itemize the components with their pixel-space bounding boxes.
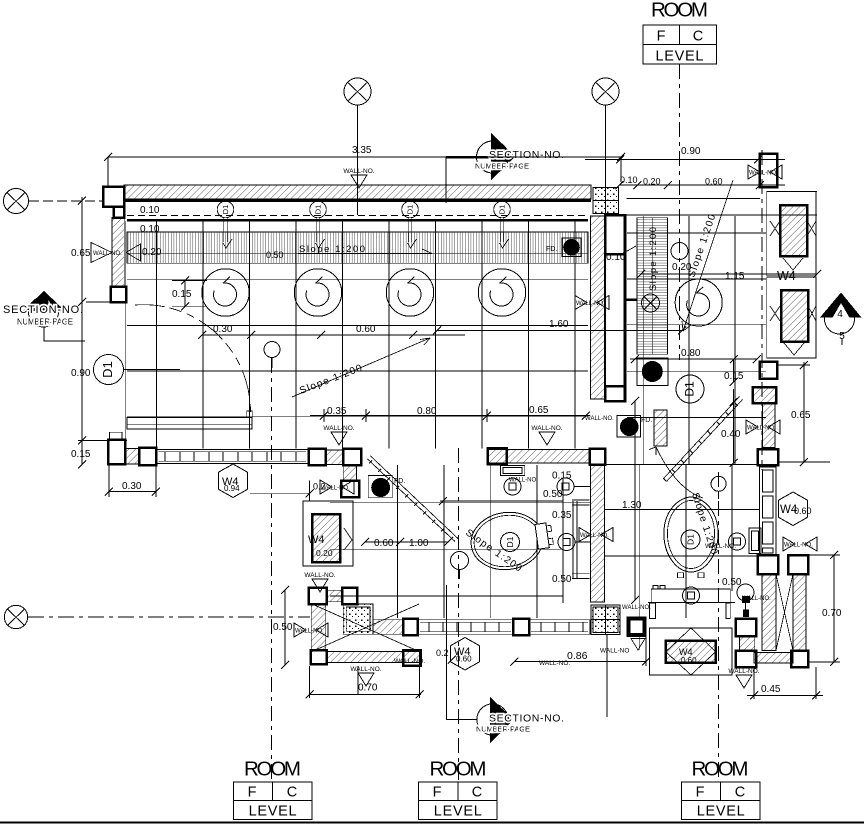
dimension chain left (0.65/0.90/0.15) — [71, 197, 127, 469]
column bottom-left A — [108, 432, 125, 464]
top wall hatched band — [124, 185, 591, 199]
svg-text:0.15: 0.15 — [71, 449, 91, 460]
svg-text:SECTION-NO.: SECTION-NO. — [489, 713, 564, 725]
svg-text:1.30: 1.30 — [622, 500, 642, 511]
svg-text:1.60: 1.60 — [549, 319, 569, 330]
pipe chase line — [562, 478, 564, 603]
right boundary helper lines — [605, 464, 760, 466]
urinal 3 — [386, 269, 433, 316]
svg-text:0.35: 0.35 — [327, 406, 347, 417]
svg-text:NUMBER-PAGE: NUMBER-PAGE — [17, 318, 73, 327]
valve circle 1 — [504, 478, 521, 495]
svg-text:3.35: 3.35 — [352, 145, 372, 156]
svg-text:C: C — [693, 29, 703, 45]
urinal 4 — [478, 269, 525, 316]
cleanout circle on grate — [642, 294, 660, 312]
grid bubble X top-2 — [592, 78, 619, 214]
svg-text:0.20: 0.20 — [316, 548, 333, 558]
dimension 0.70 right — [808, 551, 842, 666]
svg-text:0.50: 0.50 — [722, 577, 742, 588]
urinal supply stems — [223, 218, 509, 248]
svg-text:0.50: 0.50 — [266, 250, 284, 260]
label 0.25 and bowtie — [250, 480, 354, 497]
valve circle 2 — [557, 478, 590, 495]
svg-text:0.90: 0.90 — [71, 368, 91, 379]
wall-no bowtie wall A mid — [579, 528, 613, 542]
speckled column block top corner — [593, 188, 619, 214]
wall-no labels corner — [600, 605, 651, 655]
grid bubble D1 left — [94, 355, 181, 385]
drain grate band left room — [127, 232, 588, 263]
dimension 0.30 bottom-left — [105, 465, 160, 497]
svg-text:0.20: 0.20 — [643, 177, 661, 187]
hatched block right mid — [753, 387, 777, 403]
floor sign circle middle — [451, 552, 469, 580]
left wall inner face line — [125, 221, 127, 448]
dimension 1.30 — [622, 397, 642, 604]
svg-text:ROOM: ROOM — [430, 758, 487, 781]
svg-text:0.65: 0.65 — [791, 410, 811, 421]
svg-text:0.45: 0.45 — [761, 684, 781, 695]
floor drain FD right room — [585, 415, 652, 437]
svg-text:1.00: 1.00 — [409, 538, 429, 549]
urinal bubbles D1 row — [217, 201, 510, 218]
speckled square shaft — [343, 604, 373, 634]
dimension 0.90 top right — [585, 146, 785, 164]
svg-text:0.2: 0.2 — [436, 648, 449, 658]
svg-text:0.50: 0.50 — [273, 622, 293, 633]
wall-no bowtie top right — [748, 165, 782, 179]
bottom band right stall — [754, 653, 793, 664]
hatch strip below D — [343, 465, 356, 480]
tiled band 2 — [529, 620, 590, 634]
svg-text:0.50: 0.50 — [543, 489, 563, 500]
svg-text:4: 4 — [837, 309, 843, 320]
tiled wall band bottom-left — [156, 449, 308, 463]
door post hatched — [654, 410, 667, 446]
columns L M N — [736, 619, 809, 668]
wall-no marker duct — [304, 572, 335, 592]
svg-text:0.15: 0.15 — [172, 289, 192, 300]
wall-no bowtie right stall — [783, 537, 817, 551]
svg-text:Slope 1:200: Slope 1:200 — [648, 227, 659, 291]
dimension line 0.50 stall — [439, 497, 563, 505]
svg-text:ROOM: ROOM — [692, 758, 749, 781]
svg-text:0.40: 0.40 — [721, 429, 741, 440]
tile grid right lower room — [605, 465, 759, 650]
hatched walls right stall — [762, 574, 806, 651]
svg-text:C: C — [472, 785, 482, 801]
tile grid right room — [627, 216, 766, 464]
svg-text:0.60: 0.60 — [794, 506, 812, 516]
section marker bottom-middle — [446, 585, 564, 743]
wall-no bowtie left wall — [91, 243, 141, 263]
column I — [513, 619, 529, 636]
lower-left vertical wall hatched — [311, 604, 326, 651]
svg-text:LEVEL: LEVEL — [656, 49, 704, 65]
interior wall A hatched upper — [591, 216, 605, 399]
door swing right room — [656, 447, 703, 498]
door leaf right room — [664, 397, 743, 482]
svg-text:WALL-NO.: WALL-NO. — [622, 605, 651, 611]
wall-no bowtie wall B — [575, 296, 637, 310]
grid bubble X top-1 — [344, 78, 371, 215]
duct shaft W4 left — [303, 501, 353, 566]
svg-text:0.65: 0.65 — [71, 248, 91, 259]
column C mid — [309, 449, 326, 466]
dimension 0.86 — [510, 650, 650, 667]
wall A lower hatched — [591, 465, 605, 602]
valve circle 3 — [558, 534, 590, 551]
hatch segment C-D — [326, 450, 343, 465]
svg-text:LEVEL: LEVEL — [697, 804, 745, 820]
dimension 0.80 right room — [630, 348, 761, 363]
dimension 0.40 — [721, 389, 741, 467]
vanity counter — [650, 628, 733, 675]
column H — [403, 619, 417, 636]
window assembly W4 lower — [767, 277, 816, 358]
room table bottom-middle — [419, 758, 498, 820]
flush valve toilet 2 — [729, 528, 762, 554]
toilet 1 accessible — [467, 506, 556, 574]
dimension 0.65 right — [778, 361, 830, 466]
wall band hatch mid — [373, 620, 403, 634]
door leaf middle room — [368, 456, 459, 542]
top wall second thick line — [127, 219, 588, 222]
centerline vertical x718.5 — [718, 472, 720, 780]
dimension 3.35 top — [104, 145, 625, 186]
dimension row 0.30 / 0.60 — [198, 324, 465, 339]
tile grid middle lower room — [330, 465, 590, 618]
cistern toilet 1 — [501, 465, 525, 475]
stall partition tiled wall — [760, 467, 777, 555]
centerline vertical x271.7 — [271, 358, 273, 780]
urinal 1 — [202, 269, 249, 316]
labels 0.15 0.50 0.35 0.50 pipe chase — [543, 471, 572, 586]
svg-text:ROOM: ROOM — [244, 758, 301, 781]
room table top — [643, 0, 717, 65]
floor drain FD middle room — [368, 476, 405, 498]
window assembly W4 upper — [767, 191, 816, 275]
svg-text:0.20: 0.20 — [142, 247, 162, 258]
hexagon W4 right — [779, 492, 812, 526]
dimension 0.15 urinal — [172, 277, 207, 311]
svg-text:WALL-NO: WALL-NO — [600, 648, 629, 655]
svg-text:NUMBER-PAGE: NUMBER-PAGE — [475, 162, 529, 171]
door jamb top right — [760, 154, 777, 188]
wall-no marker + 0.45 dim — [728, 667, 823, 700]
columns F G — [309, 588, 358, 604]
left wall hatched — [112, 218, 124, 287]
svg-text:D1: D1 — [683, 381, 697, 397]
svg-text:0.30: 0.30 — [122, 481, 142, 492]
svg-text:D1: D1 — [100, 361, 115, 378]
svg-text:LEVEL: LEVEL — [249, 804, 297, 820]
right room top wall lines — [627, 191, 818, 215]
svg-text:0.65: 0.65 — [529, 405, 549, 416]
svg-text:LEVEL: LEVEL — [434, 804, 482, 820]
svg-text:0.60: 0.60 — [705, 177, 723, 187]
wall-no marker + 0.70 dim — [306, 652, 424, 699]
column right lower — [758, 449, 779, 465]
svg-text:WALL-NO.: WALL-NO. — [585, 416, 614, 422]
grid bubble D1 right room — [676, 375, 704, 403]
hatch segment — [125, 449, 139, 465]
centerline vertical x762 — [761, 150, 763, 470]
column E — [341, 481, 359, 498]
floor drain circle right room — [675, 279, 722, 326]
section marker left — [3, 291, 85, 341]
tile grid left room — [127, 222, 588, 449]
svg-text:0.70: 0.70 — [822, 608, 842, 619]
svg-text:0.60: 0.60 — [456, 655, 472, 664]
corner column top-left — [103, 187, 124, 218]
dimension 0.60 1.00 — [361, 538, 452, 549]
top wall inner thick line — [124, 200, 591, 203]
svg-text:C: C — [735, 785, 745, 801]
svg-text:0.60: 0.60 — [681, 656, 697, 665]
black column bottom corner — [629, 619, 645, 636]
bench left room — [127, 411, 252, 429]
svg-text:FD.: FD. — [546, 246, 557, 253]
column bottom-left B — [139, 448, 156, 466]
border line bottom — [0, 822, 864, 824]
door swing arc left room — [135, 305, 251, 412]
hexagon W4 bottom-left — [219, 464, 248, 498]
bottom wall middle room — [311, 650, 421, 665]
slope label left room grate — [298, 244, 432, 255]
centerline horizontal y617 — [28, 616, 310, 618]
svg-text:NUMBER-PAGE: NUMBER-PAGE — [476, 725, 530, 734]
wall-no marker top wall — [343, 168, 374, 188]
svg-text:F: F — [657, 29, 666, 45]
svg-text:F: F — [433, 785, 442, 801]
middle room south wall top band — [488, 448, 590, 464]
svg-text:0.90: 0.90 — [681, 146, 701, 157]
wall-no bowtie right lower — [746, 420, 780, 434]
left boundary line lower room — [309, 481, 311, 501]
toilet 2 — [664, 497, 718, 578]
svg-text:WALL-NO.: WALL-NO. — [509, 478, 538, 484]
slope line right room — [682, 180, 733, 331]
X brace lower-left — [312, 604, 419, 652]
svg-text:WALL-NO.: WALL-NO. — [539, 660, 570, 667]
grab bar — [572, 500, 590, 579]
svg-text:D1: D1 — [505, 536, 515, 547]
floor sign circle right stall — [711, 476, 726, 499]
vertical drain grate right — [637, 218, 668, 354]
svg-text:SECTION-NO.: SECTION-NO. — [3, 304, 83, 316]
boundary lines below corner — [607, 635, 646, 718]
soap valve counter — [683, 587, 700, 604]
column right mid — [760, 362, 778, 379]
top wall dashed line — [127, 215, 588, 217]
svg-text:W4: W4 — [777, 269, 796, 283]
svg-text:0.80: 0.80 — [681, 348, 701, 359]
column wall A — [590, 449, 606, 465]
svg-text:1.15: 1.15 — [725, 271, 745, 282]
svg-text:F: F — [248, 785, 257, 801]
floor sign circle left — [264, 342, 280, 369]
svg-text:D1: D1 — [685, 534, 695, 545]
svg-text:0.60: 0.60 — [374, 538, 394, 549]
svg-text:SECTION-NO.: SECTION-NO. — [489, 149, 564, 161]
tiled band bottom middle — [418, 620, 513, 634]
svg-text:0.60: 0.60 — [356, 324, 376, 335]
speckled block bottom corner — [591, 605, 620, 635]
svg-text:ROOM: ROOM — [651, 0, 708, 22]
dimension 1.15 — [637, 270, 821, 282]
counter behind toilet 2 — [650, 586, 731, 619]
label 0.20 and hexagon W4 bottom — [436, 638, 480, 671]
svg-text:0.94: 0.94 — [224, 484, 240, 493]
svg-text:0.35: 0.35 — [552, 510, 572, 521]
svg-text:WALL-NO.: WALL-NO. — [394, 658, 425, 665]
column left-bottom of wall — [111, 287, 127, 303]
svg-text:F: F — [696, 785, 705, 801]
svg-text:W4: W4 — [308, 534, 325, 546]
centerline vertical x458.5 — [458, 448, 460, 780]
flushometer right — [737, 584, 754, 617]
dimension 1.60 — [433, 319, 686, 335]
column D — [343, 449, 361, 466]
dimension row 0.10 0.20 0.60 right — [616, 175, 786, 189]
interior wall B — [605, 215, 625, 401]
centerline vertical x679.5 — [679, 64, 681, 360]
svg-text:0.10: 0.10 — [620, 175, 638, 185]
floor drain FD top right of grate — [546, 238, 581, 257]
slope arrow middle floor — [292, 338, 430, 397]
leader 0.10 — [620, 246, 636, 255]
svg-text:C: C — [287, 785, 297, 801]
svg-text:0.70: 0.70 — [358, 683, 378, 694]
room table bottom-right — [682, 758, 761, 820]
svg-text:0.10: 0.10 — [140, 205, 160, 216]
grid bubble X top-left — [4, 189, 103, 214]
svg-text:0.80: 0.80 — [417, 406, 437, 417]
svg-text:0.15: 0.15 — [724, 371, 744, 382]
section marker right — [820, 293, 862, 346]
svg-text:FD.: FD. — [641, 417, 652, 424]
dimension 0.50 left — [273, 586, 328, 669]
urinal 2 — [294, 269, 341, 316]
right wall hatched segment — [763, 403, 776, 448]
svg-text:0.50: 0.50 — [552, 574, 572, 585]
columns J K — [758, 555, 809, 574]
svg-text:WALL-NO.: WALL-NO. — [705, 543, 736, 550]
svg-text:WALL-NO.: WALL-NO. — [93, 251, 122, 257]
door swing arrow — [649, 447, 656, 455]
floor drain FD below grate — [637, 358, 668, 386]
wall-no marker under dim row — [323, 425, 354, 445]
dimension 0.15 right room — [724, 355, 744, 386]
section marker top-middle — [446, 133, 564, 203]
dimension row 0.35 0.80 0.65 — [310, 405, 590, 422]
room table bottom-left — [233, 758, 312, 820]
shower drain circle right room — [671, 243, 688, 260]
svg-text:0.15: 0.15 — [552, 471, 572, 482]
grid bubble X left-lower — [4, 605, 27, 628]
